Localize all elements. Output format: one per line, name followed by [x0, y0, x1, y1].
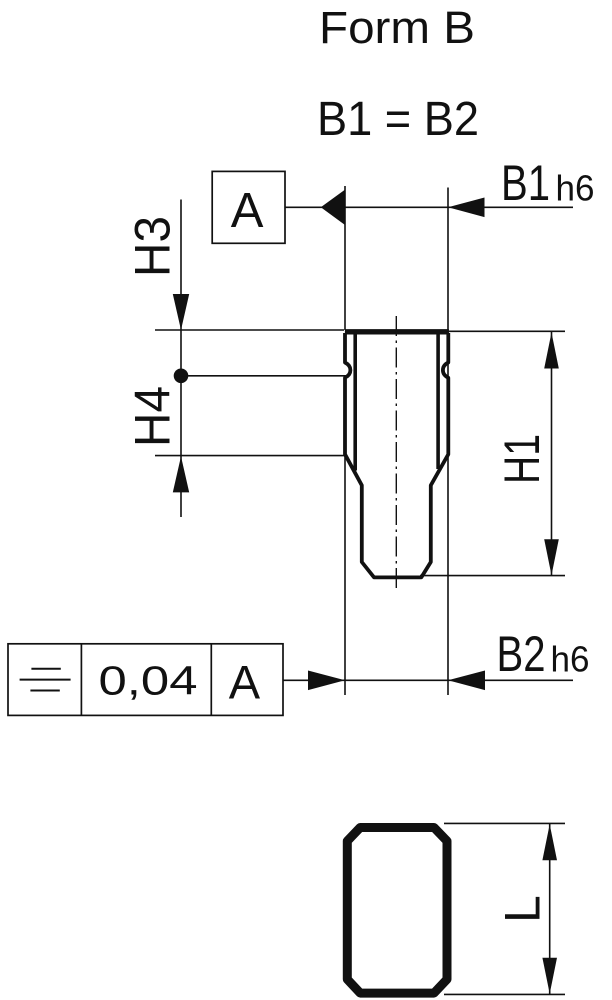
datum feature triangle on left extension line	[321, 190, 345, 225]
svg-text:A: A	[229, 656, 261, 709]
pointer line at groove	[181, 375, 346, 377]
feature control frame box	[8, 644, 283, 716]
svg-text:B1: B1	[501, 155, 550, 211]
L dimension line	[549, 824, 551, 994]
svg-text:Form B: Form B	[319, 2, 475, 53]
H1 arrowhead up	[544, 333, 559, 369]
H1 dimension line	[551, 332, 553, 576]
pointer line at taper shoulder	[155, 455, 346, 457]
L bottom extension line	[444, 993, 565, 995]
datum callout frame A	[212, 171, 285, 243]
arrowhead B2 (points left at right extension line)	[448, 671, 485, 691]
H3/H4 common dimension line (vertical)	[180, 200, 182, 518]
extension line right (B1 down to B2)	[447, 188, 449, 696]
svg-text:L: L	[495, 895, 551, 923]
arrowhead B1 (points left at right extension line)	[448, 198, 485, 218]
leader from frame to part (B2 line)	[283, 679, 573, 681]
bottom view: chamfered square	[347, 828, 447, 994]
svg-text:H3: H3	[125, 216, 181, 277]
part side view: thread root line right	[436, 334, 440, 469]
L arrowhead up	[542, 824, 557, 860]
L arrowhead down	[542, 958, 557, 994]
svg-text:0,04: 0,04	[99, 658, 198, 704]
H4 arrowhead (points up to shoulder line)	[173, 456, 189, 492]
dimension text B1 h6	[501, 155, 595, 211]
dimension text B2 h6	[497, 626, 590, 682]
extension line left (bottom, part to B2)	[344, 455, 346, 695]
svg-text:A: A	[231, 184, 264, 238]
part side view: thread root line left	[353, 334, 357, 471]
H1 top extension line	[446, 330, 565, 332]
L top extension line	[444, 822, 565, 824]
symmetry symbol	[20, 669, 71, 691]
svg-text:h6: h6	[551, 639, 590, 680]
leader from datum frame to datum triangle	[285, 206, 322, 208]
pointer line at part top face	[155, 329, 344, 331]
arrowhead at left extension (points right)	[308, 671, 345, 691]
svg-text:B2: B2	[497, 626, 546, 682]
part side view: top face thick bar	[345, 329, 449, 334]
svg-text:B1 = B2: B1 = B2	[317, 93, 479, 146]
dimension line B1	[345, 206, 574, 208]
extension line left (top, to part)	[344, 186, 346, 330]
H1 bottom extension line	[420, 575, 565, 577]
centerline of part	[395, 316, 397, 588]
svg-text:h6: h6	[556, 168, 595, 209]
svg-text:H1: H1	[494, 434, 550, 484]
H1 arrowhead down	[544, 539, 559, 575]
svg-text:H4: H4	[125, 386, 181, 447]
chain dot between H3 and H4	[174, 369, 189, 384]
H3 arrowhead (points down to part top)	[173, 294, 189, 330]
part side view: outline	[345, 333, 448, 577]
